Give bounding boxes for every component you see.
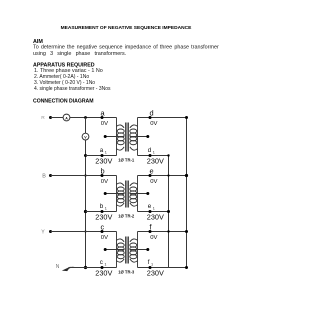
transformer TR-2 primary centre tap	[104, 192, 125, 195]
transformer TR-3 secondary centre tap	[130, 248, 150, 251]
svg-text:0V: 0V	[150, 179, 157, 185]
junction R line and voltmeter branch	[84, 116, 87, 119]
svg-text:d: d	[150, 109, 154, 118]
transformer TR-2 secondary winding e-e1	[130, 176, 138, 212]
junction left bus at a1 row	[84, 154, 87, 157]
transformer TR-2 primary winding b-b1	[117, 176, 125, 212]
svg-text:CONNECTION DIAGRAM: CONNECTION DIAGRAM	[33, 98, 94, 104]
wire e1 row to mid vertical	[138, 211, 169, 213]
junction mid vertical at f row	[167, 230, 169, 232]
wire B terminal to node b	[51, 175, 117, 177]
svg-text:d1: d1	[148, 147, 155, 154]
wire d1 row to mid vertical	[138, 155, 169, 157]
junction left bus at c row	[85, 231, 87, 233]
transformer TR-1 primary winding a-a1	[117, 118, 125, 156]
wire f1 row to right bus	[138, 267, 187, 269]
wire a1 row from left bus	[86, 155, 117, 157]
transformer TR-3 primary centre tap	[104, 248, 125, 251]
svg-text:230V: 230V	[147, 157, 164, 166]
junction mid vertical at d1	[167, 154, 169, 156]
svg-text:To determine the negative sequ: To determine the negative sequence imped…	[33, 45, 219, 51]
svg-text:a: a	[101, 109, 106, 118]
transformer TR-1 secondary winding d-d1	[130, 118, 138, 156]
svg-text:0V: 0V	[101, 235, 108, 241]
node B phase terminal	[42, 173, 52, 179]
junction mid vertical at e row	[167, 174, 169, 176]
svg-text:1Ø TR-1: 1Ø TR-1	[118, 157, 135, 162]
svg-text:b: b	[101, 167, 105, 176]
transformer TR-2 core	[126, 181, 129, 208]
svg-text:1Ø TR-3: 1Ø TR-3	[118, 269, 135, 274]
node e terminal	[149, 174, 152, 177]
junction right bus at e row	[185, 174, 188, 177]
svg-text:using 3 single phase transform: using 3 single phase transformers.	[33, 51, 126, 57]
svg-text:a1: a1	[100, 147, 107, 154]
svg-text:B: B	[42, 173, 46, 179]
node R phase terminal	[41, 115, 52, 121]
node f1 terminal	[149, 266, 152, 269]
junction left bus at b1 row	[84, 210, 87, 213]
node f terminal	[149, 230, 152, 233]
svg-text:e1: e1	[148, 203, 155, 210]
junction left bus at N row	[84, 266, 87, 269]
node a terminal	[101, 116, 104, 119]
svg-text:0V: 0V	[101, 179, 108, 185]
node Y phase terminal	[41, 230, 52, 236]
svg-text:230V: 230V	[147, 213, 164, 222]
wire b1 row from left bus	[86, 211, 117, 213]
svg-text:4. single phase transformer -: 4. single phase transformer - 3Nos	[34, 86, 111, 92]
svg-text:MEASUREMENT OF NEGATIVE SEQUEN: MEASUREMENT OF NEGATIVE SEQUENCE IMPEDAN…	[61, 25, 192, 31]
svg-text:230V: 230V	[95, 269, 112, 278]
wire right bus d row to f1 row	[186, 118, 188, 268]
node d terminal	[149, 116, 152, 119]
svg-text:N: N	[56, 264, 60, 270]
transformer TR-3 primary winding c-c1	[117, 232, 125, 268]
svg-text:e: e	[150, 167, 154, 176]
svg-text:1Ø TR-2: 1Ø TR-2	[118, 213, 135, 218]
svg-text:f1: f1	[148, 259, 153, 266]
svg-text:0V: 0V	[101, 121, 108, 127]
svg-text:0V: 0V	[150, 235, 157, 241]
node d1 terminal	[149, 154, 152, 157]
wire f row to right bus	[138, 231, 187, 233]
node c terminal	[101, 230, 104, 233]
transformer TR-1 secondary centre tap	[130, 135, 150, 138]
wire ammeter to node a	[70, 117, 117, 119]
node N neutral terminal	[56, 264, 75, 271]
svg-text:Y: Y	[41, 230, 45, 236]
node b terminal	[101, 174, 104, 177]
svg-text:f: f	[150, 223, 153, 232]
transformer TR-3 core	[126, 237, 129, 264]
node b1 terminal	[101, 210, 104, 213]
wire left bus voltmeter to N row	[85, 140, 87, 267]
node a1 terminal	[101, 154, 104, 157]
junction right bus at d row	[185, 116, 188, 119]
junction right bus at f1 row	[185, 266, 188, 269]
junction right bus at f row	[185, 230, 188, 233]
wire R terminal to ammeter	[51, 117, 64, 119]
transformer TR-3 secondary winding f-f1	[130, 232, 138, 268]
transformer TR-1 primary centre tap	[104, 135, 125, 138]
junction mid vertical at e1	[167, 210, 170, 213]
wire Y terminal to node c	[51, 231, 117, 233]
transformer TR-1 core	[126, 123, 129, 152]
wire e row to right bus	[138, 175, 187, 177]
svg-text:0V: 0V	[150, 121, 157, 127]
voltmeter V (0-20V)	[82, 118, 89, 141]
transformer TR-2 secondary centre tap	[130, 192, 150, 195]
junction left bus at b row	[84, 174, 86, 176]
wire mid vertical d1 to f1 row	[168, 156, 170, 268]
svg-text:c1: c1	[100, 259, 107, 266]
svg-text:b1: b1	[100, 203, 107, 210]
node c1 terminal	[101, 266, 104, 269]
ammeter A (0-2A)	[63, 114, 70, 121]
node e1 terminal	[149, 210, 152, 213]
wire d row to right bus	[138, 117, 187, 119]
svg-text:R: R	[41, 115, 45, 121]
wire N terminal to node c1	[69, 267, 117, 269]
svg-text:230V: 230V	[95, 213, 112, 222]
svg-text:230V: 230V	[95, 157, 112, 166]
svg-text:A: A	[65, 116, 68, 120]
svg-text:c: c	[101, 223, 105, 232]
svg-text:230V: 230V	[147, 269, 164, 278]
